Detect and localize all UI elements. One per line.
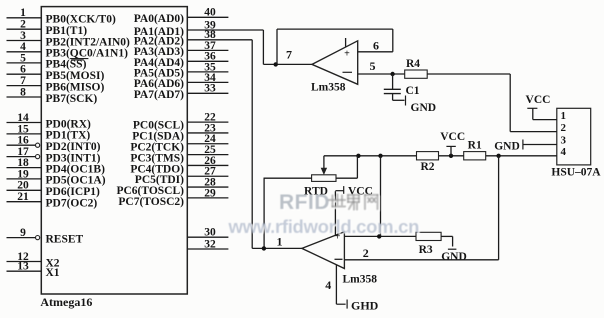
svg-text:5: 5 bbox=[370, 59, 376, 73]
svg-text:PA7(AD7): PA7(AD7) bbox=[134, 89, 184, 101]
svg-text:7: 7 bbox=[20, 75, 26, 87]
svg-text:19: 19 bbox=[17, 168, 29, 180]
svg-text:6: 6 bbox=[20, 64, 26, 76]
svg-text:15: 15 bbox=[17, 123, 29, 135]
svg-text:GHD: GHD bbox=[351, 298, 379, 312]
svg-text:+: + bbox=[344, 49, 350, 60]
svg-text:PD6(ICP1): PD6(ICP1) bbox=[46, 186, 100, 198]
svg-text:1: 1 bbox=[20, 7, 26, 19]
svg-text:C1: C1 bbox=[406, 85, 420, 97]
svg-text:6: 6 bbox=[373, 38, 379, 52]
svg-text:PB1(T1): PB1(T1) bbox=[46, 25, 88, 37]
svg-text:5: 5 bbox=[20, 52, 26, 64]
svg-text:PB5(MOSI): PB5(MOSI) bbox=[46, 70, 105, 82]
svg-text:40: 40 bbox=[204, 7, 216, 19]
svg-text:3: 3 bbox=[561, 135, 567, 147]
svg-text:PD2(INT0): PD2(INT0) bbox=[46, 141, 101, 153]
svg-text:7: 7 bbox=[286, 48, 292, 62]
svg-text:13: 13 bbox=[17, 261, 29, 273]
svg-text:2: 2 bbox=[20, 19, 26, 31]
svg-text:RESET: RESET bbox=[46, 233, 84, 245]
svg-text:Lm358: Lm358 bbox=[311, 82, 346, 94]
svg-text:PB4(SS): PB4(SS) bbox=[46, 59, 87, 71]
svg-text:33: 33 bbox=[204, 83, 216, 95]
svg-text:PB2(INT2/AIN0): PB2(INT2/AIN0) bbox=[46, 36, 131, 48]
svg-text:R2: R2 bbox=[420, 161, 434, 173]
svg-text:20: 20 bbox=[17, 180, 29, 192]
svg-text:R1: R1 bbox=[468, 140, 482, 152]
svg-text:3: 3 bbox=[20, 30, 26, 42]
svg-text:8: 8 bbox=[20, 86, 26, 98]
svg-text:R3: R3 bbox=[419, 244, 433, 256]
svg-text:32: 32 bbox=[204, 238, 216, 250]
svg-text:PD7(OC2): PD7(OC2) bbox=[46, 198, 98, 210]
svg-text:Lm358: Lm358 bbox=[343, 273, 378, 285]
svg-text:www.rfidworld.com.cn: www.rfidworld.com.cn bbox=[228, 216, 420, 237]
svg-text:R4: R4 bbox=[406, 58, 420, 70]
svg-text:18: 18 bbox=[17, 157, 29, 169]
svg-text:X1: X1 bbox=[46, 267, 60, 279]
svg-text:9: 9 bbox=[20, 227, 26, 239]
svg-text:PB7(SCK): PB7(SCK) bbox=[46, 93, 98, 105]
svg-text:2: 2 bbox=[561, 122, 567, 134]
svg-text:PB0(XCK/T0): PB0(XCK/T0) bbox=[46, 14, 116, 26]
svg-text:30: 30 bbox=[204, 227, 216, 239]
svg-text:PD4(OC1B): PD4(OC1B) bbox=[46, 163, 106, 175]
svg-text:PC7(TOSC2): PC7(TOSC2) bbox=[118, 196, 184, 208]
svg-text:PB6(MISO): PB6(MISO) bbox=[46, 81, 105, 93]
svg-text:VCC: VCC bbox=[440, 131, 465, 143]
svg-text:GND: GND bbox=[411, 102, 437, 114]
svg-text:PD1(TX): PD1(TX) bbox=[46, 130, 91, 142]
svg-text:PA0(AD0): PA0(AD0) bbox=[134, 13, 184, 25]
svg-text:4: 4 bbox=[561, 146, 567, 158]
svg-text:Atmega16: Atmega16 bbox=[40, 295, 92, 309]
svg-text:4: 4 bbox=[325, 278, 331, 292]
svg-text:HSU–07A: HSU–07A bbox=[551, 167, 601, 179]
svg-text:1: 1 bbox=[561, 110, 567, 122]
svg-text:PD0(RX): PD0(RX) bbox=[46, 118, 92, 130]
svg-text:14: 14 bbox=[17, 112, 29, 124]
svg-text:GND: GND bbox=[494, 141, 520, 153]
svg-text:2: 2 bbox=[363, 246, 369, 260]
svg-text:16: 16 bbox=[17, 135, 29, 147]
svg-text:21: 21 bbox=[17, 191, 29, 203]
svg-text:RFID: RFID bbox=[279, 191, 330, 214]
svg-text:PD5(OC1A): PD5(OC1A) bbox=[46, 175, 106, 187]
svg-text:29: 29 bbox=[204, 187, 216, 199]
svg-text:VCC: VCC bbox=[526, 94, 551, 106]
svg-text:GND: GND bbox=[441, 251, 467, 263]
